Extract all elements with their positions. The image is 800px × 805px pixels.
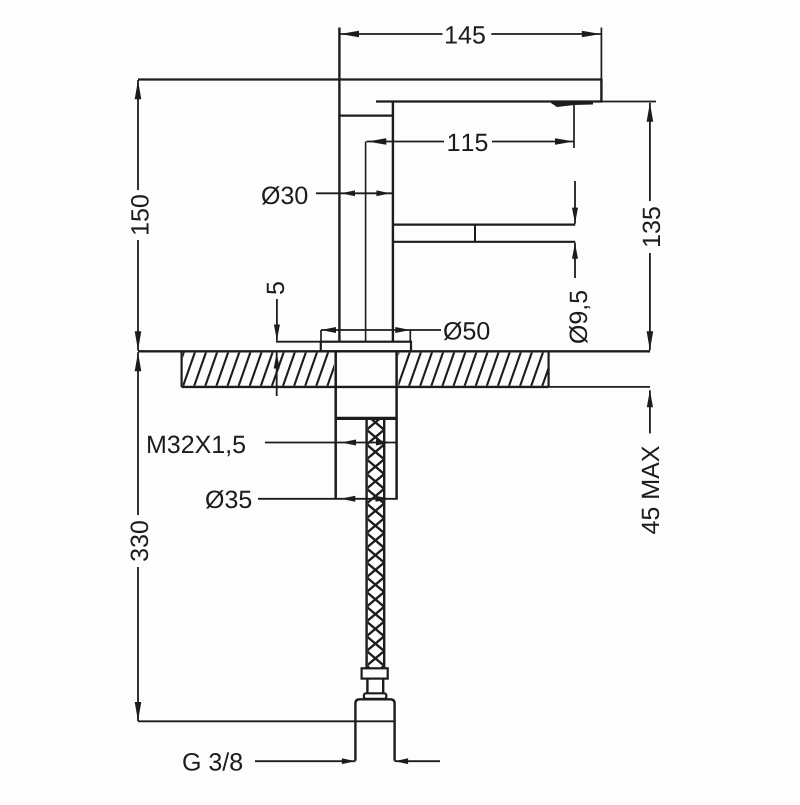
dim 150 line lower segment [137,240,139,351]
braided hose left edge [365,418,367,668]
dim 330 line upper segment [137,352,139,515]
dim G3/8 arrow pointing left at nut right edge [395,758,409,764]
deck section hatching left [160,350,351,389]
connection nut G3/8 (open bottom) [355,699,394,761]
shank left wall [334,351,337,499]
aerator under spout tip [551,101,593,107]
shank right wall [395,351,398,499]
braided hose cross weave [367,415,385,681]
dim 5 label [267,282,284,294]
dim D50 extension stub left [320,330,322,342]
dim M32 arrow left [341,440,356,446]
dim 45MAX label [642,446,659,534]
dim 150 line upper segment [137,80,139,190]
connector neck right [382,679,384,694]
dim 150 arrow up [135,80,142,99]
dim D35 arrow right [376,496,391,502]
dim 135 arrow up [647,103,654,122]
dim D50 arrow right [395,327,410,333]
base flange D50 [321,342,411,352]
dim G3/8 label [183,752,242,770]
dim D30 label [262,186,307,205]
dim G3/8 arrow pointing right at nut left edge [342,758,356,764]
dim 115 line left segment [367,141,445,143]
dim 145 arrow right [582,31,601,38]
dim 145 arrow left [340,31,359,38]
dim 115 arrow right [555,138,574,145]
dim D50 label [444,322,489,341]
connector collar [364,693,386,699]
handle lever bottom edge [393,241,575,243]
dim 115 extension line right [573,104,575,149]
dim G3/8 left shaft [255,760,355,762]
shank nut bottom face [335,417,398,420]
dim D9,5 arrow down [572,208,578,224]
dim 150 arrow down [135,331,142,350]
spout right edge [600,78,602,101]
dim 135 arrow down [647,331,654,350]
hose length reference line for 330 dim [138,720,395,722]
dim D30 arrow left [341,190,355,196]
dim 145 extension line right [600,28,602,80]
hose end ferrule [362,668,388,678]
dim 45MAX arrow up [647,390,653,407]
dim 135 line lower segment [649,253,651,350]
dim 115 line right segment [492,141,574,143]
dim 5 arrow up [274,353,280,369]
dim 115 label [449,134,488,151]
column right edge [392,102,394,342]
spout underside [376,100,603,102]
dim D35 leader and shaft [258,498,398,500]
deck bottom extension line toward 45MAX arrow [549,386,650,388]
braided hose right edge [383,418,385,668]
dim 5 lower shaft [276,353,278,397]
dim M32 leader and shaft [265,442,397,444]
deck top surface line [138,350,650,352]
column centerline [365,142,367,342]
handle lever top edge [393,224,575,226]
flange top extension stub [276,341,322,343]
dim 330 label [131,521,149,561]
dim 5 arrow down [274,325,280,341]
spout top edge with 150-dim extension [138,78,601,80]
dim G3/8 right shaft [395,760,440,762]
dim D35 arrow left [340,496,355,502]
dim 150 label [131,195,149,234]
dim D9,5 upper shaft [574,181,576,224]
dim 135 line upper segment [649,103,651,201]
dim 115 arrow left [367,138,386,145]
connector neck left [366,679,368,694]
dim M32 arrow right [376,440,391,446]
dim D50 extension stub right [409,330,411,342]
dim 135 extension line top [601,101,656,103]
dim 145 line right segment [491,33,601,35]
dim 5 upper shaft [276,299,278,341]
spout-column step line [338,114,394,116]
deck left edge [181,351,183,387]
dim D50 arrow left [321,327,336,333]
dim D30 arrow right [376,190,390,196]
dim 145 label [446,26,485,43]
dim D9,5 arrow up [572,243,578,259]
dim 330 line lower segment [137,567,139,721]
dim 330 arrow down [135,702,142,721]
dim M32X1,5 label [148,436,245,457]
dim 145 line left segment [340,33,443,35]
dim 135 label [643,207,661,246]
dim D35 label [206,490,251,509]
dim D9,5 lower shaft [574,243,576,278]
dim D50 shaft and leader [321,329,441,331]
deck section hatching right [386,350,566,389]
dim D9,5 label [569,291,590,343]
dim 330 arrow up [135,352,142,371]
deck bottom line / shank nut top face [182,386,549,388]
column left edge with 145-dim extension [338,28,340,342]
deck right edge [547,351,549,387]
dim 45MAX shaft [649,390,651,433]
handle lever joint divider [474,225,476,242]
dim D30 leader and shaft [316,192,392,194]
